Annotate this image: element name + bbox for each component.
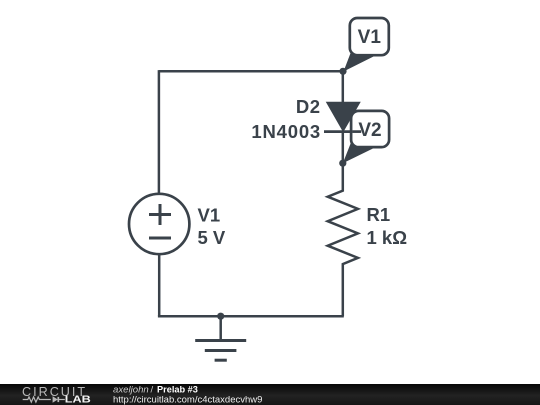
svg-text:LAB: LAB <box>65 395 91 405</box>
wire bottom horizontal <box>158 315 344 318</box>
svg-text:5 V: 5 V <box>198 227 226 248</box>
voltmeter callout V1 <box>344 18 389 72</box>
node ground junction <box>217 313 224 320</box>
footer credits text <box>113 384 262 405</box>
svg-text:1N4003: 1N4003 <box>251 121 321 142</box>
node diode-resistor junction <box>339 160 346 167</box>
wire diode cathode lead <box>342 132 345 164</box>
svg-text:V1: V1 <box>198 205 221 226</box>
diode D2 <box>324 102 361 131</box>
label V1 5 V <box>198 205 226 249</box>
voltmeter callout V2 <box>343 111 389 163</box>
circuitlab logo wordmark <box>22 385 91 405</box>
label R1 1 kOhm <box>367 204 408 248</box>
svg-text:V1: V1 <box>358 27 382 48</box>
svg-text:R1: R1 <box>367 204 391 225</box>
footer bar <box>0 384 540 405</box>
resistor R1 <box>328 163 358 316</box>
wire top horizontal <box>159 70 343 73</box>
label D2 1N4003 <box>251 96 321 142</box>
node top junction <box>339 68 346 75</box>
wire source bottom <box>158 254 161 316</box>
ground <box>195 316 246 360</box>
circuitlab logo schematic squiggle <box>23 396 65 403</box>
svg-text:Prelab #3: Prelab #3 <box>157 384 198 394</box>
svg-text:http://circuitlab.com/c4ctaxde: http://circuitlab.com/c4ctaxdecvhw9 <box>113 394 262 405</box>
wire right vertical upper (anode lead) <box>342 71 345 103</box>
wire left vertical <box>158 70 161 194</box>
svg-text:V2: V2 <box>358 120 381 141</box>
voltage source V1 <box>129 194 189 254</box>
svg-text:1 kΩ: 1 kΩ <box>367 227 408 248</box>
svg-text:D2: D2 <box>296 96 321 117</box>
